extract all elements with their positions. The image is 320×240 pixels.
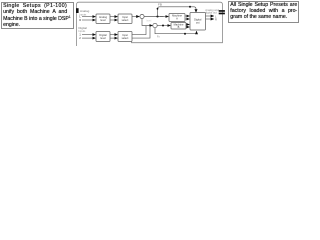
frame of routing diagram (77, 2, 223, 46)
mixer circle A (140, 14, 144, 18)
box B3 machine B (171, 22, 186, 29)
label Analog inputs (80, 9, 90, 17)
wire B2 lower up toward mixer B (132, 26, 150, 38)
analog input connector (76, 8, 79, 13)
svg-text:FB: FB (158, 3, 162, 7)
svg-text:Fx: Fx (157, 36, 161, 39)
node on loop left corner (157, 8, 159, 10)
node on bottom path (184, 33, 186, 35)
wires A1 to A2 (110, 17, 117, 20)
svg-text:A: A (176, 16, 178, 20)
svg-text:R: R (215, 17, 217, 21)
feedback loop wire (158, 7, 197, 17)
wires B3 to out box (186, 25, 189, 28)
label Digital inputs (79, 26, 88, 33)
input channel labels row A (79, 15, 81, 41)
digital in wires to box B1 (82, 35, 95, 39)
svg-text:out: out (196, 20, 200, 24)
box A1 input level (96, 14, 110, 24)
right caption box (228, 1, 300, 23)
wire A2 to mixer A (132, 16, 139, 18)
node after mixer B (162, 25, 164, 27)
box A3 machine A (169, 14, 185, 22)
box B2 (118, 32, 132, 42)
left caption box (1, 2, 74, 30)
wires B1 to B2 (110, 35, 117, 39)
svg-text:level: level (147, 20, 152, 22)
wire mixer B down right to out box bottom (155, 28, 197, 34)
box A2 (118, 14, 132, 24)
output connector black bars (219, 10, 225, 12)
svg-text:select: select (122, 36, 129, 40)
diagram (0, 0, 300, 46)
box B1 (96, 32, 110, 42)
output wires (206, 16, 214, 19)
wire mixer B to box B3 (157, 25, 170, 27)
wire B2 up to mixer B input (132, 26, 146, 35)
node feedback tap (156, 15, 158, 17)
svg-text:R: R (79, 18, 81, 22)
output box (190, 13, 206, 31)
svg-text:level: level (100, 18, 106, 22)
svg-text:select: select (122, 18, 129, 22)
node on loop right (189, 6, 191, 8)
svg-text:level: level (100, 36, 106, 40)
svg-text:2: 2 (79, 36, 81, 40)
svg-text:digital out: digital out (205, 11, 217, 15)
wires analog in to box A1 (82, 17, 95, 20)
label analog and digital output (205, 8, 219, 15)
wire mixer A to box A3 with junction (144, 16, 163, 18)
svg-text:Analog: Analog (80, 9, 90, 13)
svg-text:B: B (178, 25, 180, 29)
mixer circle B (153, 23, 157, 27)
output channel labels (215, 14, 217, 21)
wires A3 to out box (185, 16, 189, 19)
wire mixer A down to mixer B (142, 19, 152, 26)
